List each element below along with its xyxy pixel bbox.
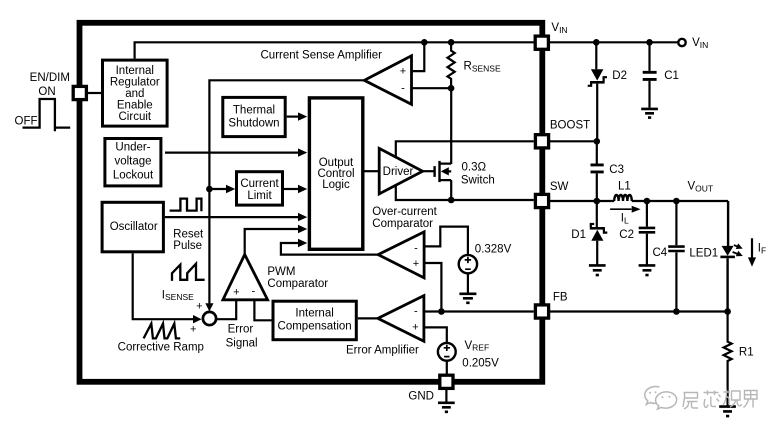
arrow IL current: [610, 206, 641, 213]
svg-text:Regulator: Regulator: [110, 76, 160, 88]
label VREF: [465, 340, 490, 353]
svg-text:0.328V: 0.328V: [475, 243, 512, 255]
capacitor C1: [643, 42, 657, 107]
label D1: [571, 229, 586, 241]
svg-text:Lockout: Lockout: [113, 170, 154, 182]
label C2: [619, 229, 634, 241]
voltage source 0.328V: [459, 255, 477, 273]
node dot RSENSE bottom: [448, 85, 455, 92]
svg-text:Reset: Reset: [173, 229, 204, 241]
label Error Signal: [226, 323, 258, 349]
wire over-current comparator output to OCL: [281, 239, 379, 255]
label VOUT: [688, 181, 714, 194]
svg-text:-: -: [401, 83, 405, 95]
svg-text:RSENSE: RSENSE: [464, 61, 501, 74]
svg-text:Enable: Enable: [117, 99, 153, 111]
diode D1 schottky: [590, 201, 608, 265]
wire oscillator reset pulse to OCL: [165, 213, 307, 221]
resistor R1: [724, 312, 732, 407]
op-amp error amplifier: [378, 296, 424, 342]
svg-text:-: -: [414, 243, 418, 255]
label VIN pin: [551, 22, 567, 35]
block Under-voltage Lockout: [105, 139, 161, 186]
svg-text:Error Amplifier: Error Amplifier: [346, 345, 419, 357]
svg-text:VREF: VREF: [465, 340, 490, 353]
svg-text:Over-current: Over-current: [372, 206, 437, 218]
svg-text:Under-: Under-: [115, 142, 150, 154]
wire BOOST rail to driver supply and SW rail: [396, 141, 534, 200]
svg-text:Current: Current: [240, 178, 279, 190]
capacitor C4: [668, 201, 685, 312]
svg-text:IF: IF: [758, 243, 766, 256]
label Error Amplifier: [346, 345, 419, 357]
svg-text:0.205V: 0.205V: [462, 357, 499, 369]
node dot FB line C4: [673, 308, 680, 315]
label 0.328V: [475, 243, 512, 255]
label LED1: [689, 248, 718, 260]
wire driver output to gate: [423, 170, 434, 172]
svg-text:-: -: [414, 305, 418, 317]
label C4: [653, 247, 668, 259]
svg-text:+: +: [233, 287, 239, 299]
node dot VOUT line C2: [644, 198, 651, 205]
buffer driver U-drv: [379, 148, 422, 194]
wire undervoltage lockout to OCL: [165, 148, 307, 156]
block Internal Compensation: [273, 301, 356, 340]
inductor L1: [614, 195, 632, 201]
wire GND pin to ground: [445, 390, 447, 402]
watermark logo bubbles: [645, 387, 677, 410]
svg-text:-: -: [251, 286, 255, 298]
wire current limit to OCL: [284, 185, 307, 193]
svg-text:C1: C1: [664, 70, 679, 82]
wire over-current plus to FB node: [424, 263, 441, 312]
label L1: [618, 181, 631, 193]
waveform reset pulse: [170, 199, 202, 212]
label 0.3ohm Switch: [461, 161, 495, 186]
svg-text:+: +: [412, 322, 418, 334]
pin BOOST: [535, 135, 548, 148]
voltage source VREF 0.205V: [438, 343, 456, 361]
svg-text:R1: R1: [739, 347, 754, 359]
IC boundary: [80, 23, 543, 382]
svg-text:Thermal: Thermal: [233, 105, 275, 117]
svg-text:Shutdown: Shutdown: [228, 118, 279, 130]
label Corrective Ramp: [118, 342, 204, 354]
wire CSA minus input to RSENSE bottom: [412, 87, 452, 89]
svg-text:VIN: VIN: [551, 22, 567, 35]
LED LED1: [720, 201, 742, 312]
wire L1 to VOUT corner: [632, 200, 728, 202]
pin GND: [440, 375, 453, 388]
label R1: [739, 347, 754, 359]
op-amp current sense amplifier: [364, 56, 411, 105]
ground under C2: [639, 265, 656, 275]
node dot FB line R1: [724, 308, 731, 315]
label BOOST: [550, 120, 590, 132]
waveform ISENSE sawtooth: [172, 264, 205, 281]
wire FB pin to R1 top: [548, 310, 727, 312]
svg-text:C4: C4: [653, 247, 668, 259]
label IL: [621, 213, 629, 226]
svg-text:C3: C3: [609, 164, 624, 176]
summing junction node: [203, 312, 216, 325]
node dot VOUT line C4: [673, 198, 680, 205]
svg-text:Current Sense Amplifier: Current Sense Amplifier: [261, 49, 383, 61]
svg-text:EN/DIM: EN/DIM: [30, 72, 70, 84]
node dot VIN rail RSENSE: [448, 39, 455, 46]
label RSENSE: [464, 61, 501, 74]
svg-text:and: and: [125, 88, 144, 100]
ground under 0.328V source: [459, 294, 476, 303]
node dot switch source on SW rail: [448, 197, 455, 204]
node dot FB branch: [438, 308, 445, 315]
wire PWM comparator output to OCL: [245, 225, 308, 255]
svg-text:OFF: OFF: [15, 115, 38, 127]
label SW: [550, 181, 569, 193]
svg-text:SW: SW: [550, 181, 569, 193]
waveform corrective ramp: [144, 324, 181, 339]
wire error amp minus to FB pin: [424, 310, 534, 312]
capacitor C2: [639, 201, 656, 265]
svg-text:+: +: [413, 258, 419, 270]
wire EN/DIM pin to regulator: [88, 92, 101, 94]
label ISENSE: [162, 289, 194, 302]
ground under GND pin: [438, 403, 455, 412]
wire PWM minus to internal compensation: [254, 299, 271, 321]
block Internal Regulator and Enable Circuit: [103, 60, 168, 126]
label Current Sense Amplifier: [261, 49, 383, 61]
capacitor C3: [591, 141, 604, 201]
wire internal compensation to error amp: [358, 317, 379, 319]
svg-text:+: +: [400, 66, 406, 78]
svg-text:PWM: PWM: [267, 266, 295, 278]
svg-text:+: +: [190, 323, 196, 335]
block Oscillator: [102, 202, 163, 252]
svg-text:GND: GND: [408, 391, 434, 403]
label Reset Pulse: [173, 229, 204, 253]
label 0.205V: [462, 357, 499, 369]
wire error amp plus to VREF source: [424, 327, 447, 343]
label VIN terminal: [692, 37, 708, 50]
svg-text:VIN: VIN: [692, 37, 708, 50]
node dot VIN rail left: [421, 39, 428, 46]
svg-text:Oscillator: Oscillator: [110, 221, 158, 233]
wire CSA plus input to VIN rail: [412, 42, 425, 71]
svg-text:VOUT: VOUT: [688, 181, 714, 194]
svg-text:C2: C2: [619, 229, 634, 241]
svg-text:FB: FB: [553, 292, 568, 304]
pin SW: [535, 194, 548, 207]
svg-text:LED1: LED1: [689, 248, 718, 260]
svg-text:+: +: [196, 300, 202, 312]
block Output Control Logic: [309, 98, 362, 249]
wire BOOST pin to C3 node: [548, 140, 597, 142]
wire CSA output to summing junction vertical: [205, 80, 364, 311]
svg-text:Comparator: Comparator: [372, 218, 433, 230]
svg-text:ON: ON: [38, 86, 55, 98]
label OFF: [15, 115, 38, 127]
label D2: [612, 70, 627, 82]
svg-text:voltage: voltage: [114, 156, 151, 168]
wire SW pin to L1: [548, 200, 614, 202]
terminal VIN input: [678, 39, 685, 46]
svg-text:Compensation: Compensation: [278, 321, 352, 333]
svg-text:BOOST: BOOST: [550, 120, 590, 132]
wire thermal shutdown to OCL: [287, 112, 308, 120]
wire node to current limit: [209, 185, 235, 193]
wire PWM plus to summing junction: [217, 299, 237, 319]
svg-text:ISENSE: ISENSE: [162, 289, 194, 302]
svg-text:Corrective Ramp: Corrective Ramp: [118, 342, 204, 354]
svg-text:Driver: Driver: [383, 166, 414, 178]
svg-text:Signal: Signal: [226, 338, 258, 350]
label PWM Comparator: [267, 266, 328, 290]
arrow IF current: [748, 238, 756, 266]
svg-text:0.3Ω: 0.3Ω: [462, 161, 487, 173]
wire OCL to driver: [365, 170, 380, 172]
svg-text:D1: D1: [571, 229, 586, 241]
svg-text:D2: D2: [612, 70, 627, 82]
block Current Limit: [237, 172, 283, 205]
ground under R1: [719, 407, 736, 417]
transistor internal switch 0.3ohm: [435, 88, 452, 200]
svg-text:Logic: Logic: [322, 179, 350, 191]
node dot SW line D1: [594, 198, 601, 205]
svg-text:L1: L1: [618, 181, 631, 193]
svg-text:Pulse: Pulse: [173, 240, 202, 252]
svg-text:Internal: Internal: [295, 308, 333, 320]
svg-text:IL: IL: [621, 213, 629, 226]
node dot VIN line D2: [593, 39, 600, 46]
block Thermal Shutdown: [223, 97, 285, 136]
label FB: [553, 292, 568, 304]
diode D2: [588, 42, 607, 141]
wire 0.328V source to ground: [467, 273, 469, 293]
node dot BOOST line C3: [594, 138, 601, 145]
pin FB: [535, 305, 548, 318]
watermark text ping xin shi jie: [683, 390, 757, 410]
node dot current limit branch: [206, 186, 213, 193]
label plus at summing junction bottom: [190, 323, 196, 335]
ground under C1: [641, 109, 658, 118]
pin EN/DIM: [73, 86, 86, 99]
op-amp over-current comparator: [378, 232, 424, 278]
svg-text:Error: Error: [228, 323, 254, 335]
pin VIN: [535, 36, 548, 49]
wire over-current minus to 0.328V source: [424, 227, 468, 255]
wire VREF source to GND pin: [446, 361, 448, 374]
label GND: [408, 391, 434, 403]
svg-text:Internal: Internal: [116, 65, 154, 77]
svg-text:Switch: Switch: [461, 175, 495, 187]
wire oscillator to summing junction: [133, 253, 202, 323]
label IF: [758, 243, 766, 256]
node dot VIN line C1: [646, 39, 653, 46]
label Over-current Comparator: [372, 206, 437, 230]
ground under D1: [589, 265, 606, 275]
resistor RSENSE: [448, 42, 455, 88]
label EN/DIM: [30, 72, 70, 84]
waveform EN/DIM pulse: [23, 99, 71, 131]
svg-text:Comparator: Comparator: [267, 278, 328, 290]
svg-text:Limit: Limit: [247, 190, 272, 202]
wire VIN pin to input terminal: [548, 41, 678, 43]
op-amp PWM comparator: [223, 255, 268, 300]
label C3: [609, 164, 624, 176]
wire VIN internal rail: [135, 42, 534, 58]
svg-text:Circuit: Circuit: [119, 111, 152, 123]
label C1: [664, 70, 679, 82]
label ON: [38, 86, 55, 98]
label plus at summing junction top: [196, 300, 202, 312]
